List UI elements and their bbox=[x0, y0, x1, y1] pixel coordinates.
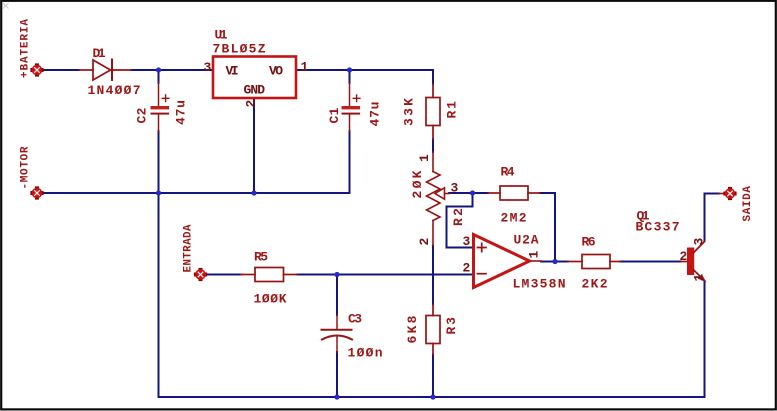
pad ENTRADA bbox=[194, 268, 207, 281]
svg-text:2ØK: 2ØK bbox=[410, 170, 425, 198]
svg-text:3: 3 bbox=[463, 234, 471, 249]
svg-text:2: 2 bbox=[463, 261, 471, 276]
svg-text:R6: R6 bbox=[582, 235, 596, 250]
wire C3 column lower bbox=[336, 352, 338, 397]
wire Q1 emitter down to bottom rail bbox=[704, 281, 706, 397]
wire C2 column upper bbox=[158, 70, 160, 83]
node junction D1/C2/U1 bbox=[156, 67, 161, 72]
wire trimmer pin2 down to R3 bbox=[432, 246, 434, 305]
node junction R3/bottom rail bbox=[430, 394, 435, 399]
svg-text:SAIDA: SAIDA bbox=[742, 186, 754, 222]
capacitor C3 bbox=[322, 315, 353, 352]
wire bottom rail bbox=[159, 396, 705, 398]
svg-text:U2A: U2A bbox=[514, 233, 539, 248]
svg-text:6K8: 6K8 bbox=[405, 315, 420, 343]
capacitor C1 bbox=[342, 83, 361, 131]
wire C2 column lower to bottom rail bbox=[158, 131, 160, 397]
pad SAIDA bbox=[719, 187, 737, 200]
wire U1 pin2 down bbox=[253, 98, 255, 193]
svg-text:GND: GND bbox=[244, 83, 266, 98]
svg-text:33K: 33K bbox=[402, 98, 417, 126]
svg-text:1ØØn: 1ØØn bbox=[348, 346, 383, 361]
svg-text:1: 1 bbox=[692, 274, 707, 282]
wire R6 to Q1 base bbox=[620, 261, 681, 263]
svg-text:R1: R1 bbox=[445, 101, 460, 119]
node junction U1 GND rail bbox=[251, 190, 256, 195]
wire C1 column lower bbox=[349, 131, 351, 193]
wire R4 right to corner down to output junction bbox=[540, 193, 555, 262]
transistor Q1 bbox=[681, 242, 705, 282]
resistor R3 bbox=[426, 305, 440, 355]
wire U1 pin1 to corner above R1 bbox=[296, 70, 433, 84]
wire R3 bottom to bottom rail bbox=[432, 355, 434, 398]
capacitor C2 bbox=[151, 83, 170, 131]
op-amp U2A bbox=[474, 235, 542, 288]
node junction R5/C3 bbox=[334, 272, 339, 277]
wire -MOTOR rail bbox=[43, 192, 350, 194]
wire R5 to op-amp -input (junction at 337, crossing at 433) bbox=[297, 274, 472, 276]
pad +BATERIA bbox=[30, 63, 43, 76]
diode D1 bbox=[79, 60, 131, 81]
node junction op-amp output bbox=[552, 259, 557, 264]
svg-text:1ØØK: 1ØØK bbox=[254, 292, 287, 307]
svg-text:2K2: 2K2 bbox=[582, 277, 608, 292]
svg-text:2: 2 bbox=[680, 249, 688, 264]
svg-text:U1: U1 bbox=[215, 28, 228, 43]
node junction C3/bottom rail bbox=[334, 394, 339, 399]
svg-text:R5: R5 bbox=[254, 250, 268, 265]
wire ENTRADA pad to R5 bbox=[206, 274, 241, 276]
wire D1 to U1 pin3 (junction at 158.5) bbox=[131, 69, 213, 71]
resistor R5 bbox=[241, 268, 297, 282]
wire feedback junction down to op-amp +input bbox=[447, 193, 473, 248]
svg-text:47u: 47u bbox=[368, 102, 383, 127]
svg-text:3: 3 bbox=[451, 181, 459, 196]
regulator U1 box bbox=[213, 57, 296, 99]
wire wiper to junction to R4 bbox=[449, 192, 488, 194]
svg-text:C3: C3 bbox=[348, 312, 362, 327]
svg-text:C2: C2 bbox=[135, 107, 150, 123]
svg-text:VO: VO bbox=[269, 64, 283, 79]
svg-text:1: 1 bbox=[301, 60, 309, 75]
node junction wiper/R4 bbox=[470, 190, 475, 195]
wire R1 bottom to trimmer pin1 bbox=[432, 139, 434, 152]
svg-text:1: 1 bbox=[417, 154, 432, 162]
svg-text:3: 3 bbox=[692, 238, 707, 246]
svg-text:BC337: BC337 bbox=[636, 220, 680, 235]
svg-text:2: 2 bbox=[417, 238, 432, 246]
wire top rail pad to D1 bbox=[43, 69, 79, 71]
resistor R4 bbox=[488, 186, 540, 200]
svg-text:VI: VI bbox=[226, 64, 239, 79]
wire C1 column upper bbox=[349, 70, 351, 83]
node junction C2/-MOTOR rail bbox=[156, 190, 161, 195]
svg-text:C1: C1 bbox=[327, 107, 342, 123]
svg-text:+BATERIA: +BATERIA bbox=[20, 19, 32, 78]
wire Q1 collector up to SAIDA bbox=[705, 194, 720, 242]
svg-text:2M2: 2M2 bbox=[501, 211, 527, 226]
svg-text:3: 3 bbox=[204, 60, 212, 75]
trimmer R2 bbox=[427, 152, 450, 246]
svg-text:2: 2 bbox=[244, 100, 259, 108]
svg-text:-MOTOR: -MOTOR bbox=[20, 146, 32, 189]
resistor R1 bbox=[426, 84, 440, 139]
svg-text:R3: R3 bbox=[444, 317, 459, 335]
corner origin marker bbox=[3, 3, 9, 9]
svg-text:ENTRADA: ENTRADA bbox=[183, 224, 195, 272]
wire op-amp output to R6 bbox=[541, 261, 568, 263]
svg-text:1: 1 bbox=[527, 251, 542, 259]
node junction U1out/C1 bbox=[347, 67, 352, 72]
svg-text:R4: R4 bbox=[501, 165, 515, 180]
pad -MOTOR bbox=[30, 186, 43, 199]
svg-text:D1: D1 bbox=[93, 46, 106, 61]
resistor R6 bbox=[568, 255, 620, 269]
svg-text:47u: 47u bbox=[174, 100, 189, 125]
wire C3 column upper bbox=[336, 275, 338, 316]
